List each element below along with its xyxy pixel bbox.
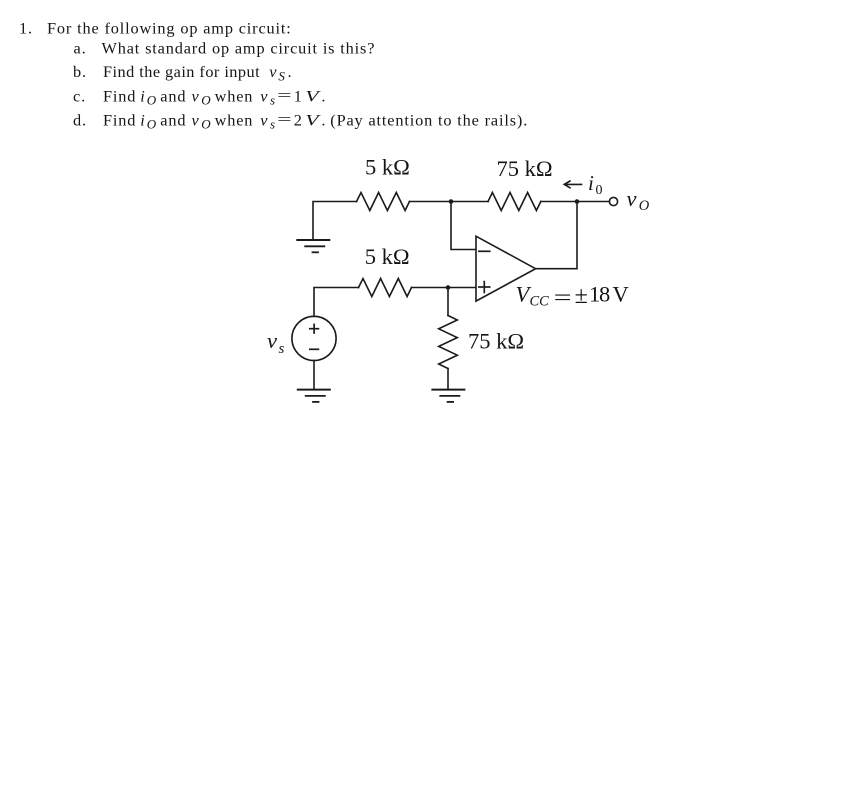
- svg-text:=: =: [554, 284, 572, 309]
- wire: N1 down to inverting input: [451, 202, 476, 250]
- svg-text:v: v: [269, 62, 277, 81]
- resistor R4 75k (vertical): [439, 316, 458, 369]
- svg-text:Find the gain for input: Find the gain for input: [103, 62, 260, 81]
- svg-text:i: i: [588, 171, 594, 195]
- svg-text:c.: c.: [73, 86, 86, 105]
- svg-text:CC: CC: [530, 293, 550, 309]
- svg-text:and: and: [160, 86, 186, 105]
- svg-text:.: .: [288, 62, 293, 81]
- svg-text:Find: Find: [103, 110, 136, 129]
- svg-text:5 kΩ: 5 kΩ: [365, 155, 410, 180]
- svg-text:V: V: [613, 281, 629, 306]
- wire: R4 down to ground G3: [447, 369, 449, 390]
- svg-text:What standard op amp circuit i: What standard op amp circuit is this?: [102, 38, 376, 57]
- svg-text:b.: b.: [73, 62, 87, 81]
- svg-text:i: i: [140, 86, 145, 105]
- svg-text:s: s: [270, 117, 275, 132]
- svg-text:O: O: [201, 93, 211, 108]
- wire: R2 to node N2 to output terminal: [541, 201, 610, 203]
- svg-text:O: O: [639, 198, 650, 214]
- svg-text:=: =: [277, 110, 293, 129]
- resistor R2 75k (top, horizontal): [488, 193, 541, 211]
- svg-text:0: 0: [596, 183, 603, 198]
- svg-text:d.: d.: [73, 110, 87, 129]
- current arrow for i0: [564, 181, 581, 188]
- svg-text:.: .: [321, 110, 326, 129]
- svg-text:S: S: [278, 69, 285, 84]
- svg-text:.: .: [321, 86, 326, 105]
- svg-text:O: O: [147, 93, 157, 108]
- svg-text:V: V: [305, 86, 321, 105]
- svg-text:75 kΩ: 75 kΩ: [497, 156, 553, 181]
- svg-text:(Pay attention to the rails).: (Pay attention to the rails).: [330, 110, 528, 129]
- svg-text:1: 1: [294, 86, 303, 105]
- op-amp inverting input minus sign: [479, 250, 490, 252]
- svg-text:s: s: [279, 341, 285, 357]
- svg-text:v: v: [260, 110, 268, 129]
- wire: G1 up and right to R1: [313, 202, 357, 241]
- ground G3 (below R4): [432, 390, 464, 402]
- svg-text:v: v: [627, 186, 637, 211]
- svg-text:v: v: [260, 86, 268, 105]
- source plus sign: [310, 324, 319, 333]
- op-amp non-inverting input plus sign: [479, 282, 490, 293]
- wire: R1 to node N1 to R2: [410, 201, 489, 203]
- source minus sign: [310, 348, 319, 350]
- svg-text:O: O: [147, 117, 157, 132]
- wire: N2 down and left to op-amp output: [536, 202, 577, 269]
- svg-text:v: v: [192, 110, 200, 129]
- svg-text:V: V: [305, 110, 321, 129]
- node N1 junction dot: [449, 199, 454, 204]
- svg-text:±: ±: [575, 283, 588, 309]
- resistor R3 5k (lower, horizontal): [359, 279, 412, 297]
- svg-text:1.: 1.: [19, 18, 33, 37]
- svg-text:O: O: [201, 117, 211, 132]
- op-amp U1 triangle: [476, 236, 536, 301]
- svg-text:s: s: [270, 93, 275, 108]
- svg-text:v: v: [267, 328, 277, 353]
- ground G1 (top left): [297, 240, 329, 252]
- svg-text:when: when: [215, 86, 254, 105]
- ground G2 (below source): [298, 390, 330, 402]
- svg-text:=: =: [277, 86, 293, 105]
- svg-text:18: 18: [589, 281, 610, 306]
- svg-text:i: i: [140, 110, 145, 129]
- resistor R1 5k (top left, horizontal): [357, 193, 410, 211]
- svg-text:75 kΩ: 75 kΩ: [468, 329, 524, 354]
- svg-text:2: 2: [294, 110, 303, 129]
- svg-text:when: when: [215, 110, 254, 129]
- source VS circle: [292, 316, 336, 360]
- output terminal open circle: [609, 197, 617, 205]
- svg-text:Find: Find: [103, 86, 136, 105]
- svg-text:For the following op amp circu: For the following op amp circuit:: [47, 18, 292, 37]
- node N3 junction dot: [446, 285, 451, 290]
- svg-text:v: v: [192, 86, 200, 105]
- wire: VS top up and right to R3: [314, 288, 359, 317]
- svg-text:5 kΩ: 5 kΩ: [365, 244, 410, 269]
- wire: R3 to node N3 to non-inverting input: [412, 287, 476, 289]
- svg-text:a.: a.: [74, 38, 87, 57]
- wire: N3 down to R4: [447, 288, 449, 316]
- wire: VS bottom down to ground G2: [313, 361, 315, 390]
- svg-text:and: and: [160, 110, 186, 129]
- node N2 junction dot: [575, 199, 580, 204]
